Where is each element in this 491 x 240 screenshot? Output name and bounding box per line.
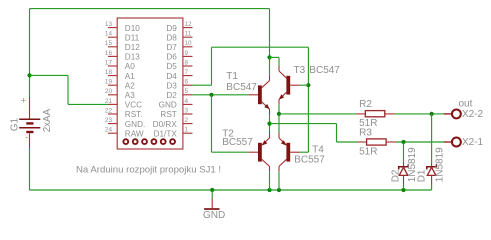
svg-text:4: 4	[185, 98, 189, 105]
pin 4 (GND)	[183, 103, 193, 105]
node A junction	[267, 122, 271, 126]
wire top V+ rail from battery to transistor column	[30, 8, 270, 10]
wire V+ to T1 collector	[269, 57, 271, 75]
pin 6 (D3)	[183, 84, 193, 86]
node B junction	[277, 112, 281, 116]
svg-text:VCC: VCC	[125, 101, 142, 110]
svg-text:out: out	[459, 98, 473, 109]
connector X2-2	[444, 113, 453, 115]
svg-text:11: 11	[185, 31, 192, 38]
pin 12 (D9)	[183, 27, 193, 29]
svg-text:23: 23	[105, 117, 113, 124]
svg-text:D8: D8	[166, 33, 177, 42]
svg-text:51R: 51R	[359, 146, 377, 157]
svg-text:12: 12	[185, 21, 193, 28]
svg-text:BC557: BC557	[222, 137, 253, 148]
svg-text:13: 13	[105, 21, 113, 28]
wire T2 collector down	[269, 172, 271, 190]
pin 19 (A2)	[108, 84, 117, 86]
ground symbol	[211, 199, 213, 209]
wire V+ jog to T3 collector	[270, 56, 280, 58]
node V+ junction	[267, 55, 271, 59]
wire GND stub	[211, 190, 213, 199]
svg-text:15: 15	[105, 40, 113, 47]
wire base rail to T4 base	[300, 151, 309, 153]
svg-text:X2-1: X2-1	[462, 137, 484, 148]
svg-text:17: 17	[105, 59, 113, 66]
node T2 collector junction	[267, 188, 271, 192]
svg-text:D1/TX: D1/TX	[154, 129, 178, 138]
wire D1 bottom	[431, 185, 433, 191]
svg-text:2xAA: 2xAA	[42, 108, 53, 132]
wire bottom GND rail	[30, 189, 432, 191]
wire pin5 net down	[211, 95, 213, 152]
svg-text:X2-2: X2-2	[462, 109, 484, 120]
pin 8 (D5)	[183, 65, 193, 67]
wire R2 to X2-2	[395, 113, 444, 115]
svg-text:D10: D10	[125, 24, 140, 33]
node T3 base junction	[306, 83, 310, 87]
pin 7 (D4)	[183, 75, 193, 77]
wire V+ rail drop	[269, 9, 271, 58]
transistor T4 BC557	[286, 143, 290, 162]
svg-text:GND: GND	[159, 101, 177, 110]
svg-text:20: 20	[105, 88, 113, 95]
pin 18 (A1)	[108, 75, 117, 77]
pin 17 (A0)	[108, 65, 117, 67]
wire node A vertical (T1 emitter to T2 emitter)	[269, 114, 271, 133]
svg-text:A0: A0	[125, 62, 135, 71]
svg-text:21: 21	[105, 98, 113, 105]
svg-text:BC547: BC547	[309, 65, 340, 76]
transistor T2 BC557	[258, 143, 262, 162]
svg-text:G1: G1	[10, 118, 21, 132]
svg-text:16: 16	[105, 50, 113, 57]
svg-text:RST: RST	[160, 110, 176, 119]
pin 3 (RST)	[183, 113, 193, 115]
svg-text:D12: D12	[125, 43, 140, 52]
pin 24 (RAW)	[108, 132, 117, 134]
svg-text:+: +	[21, 95, 26, 105]
pin 14 (D11)	[108, 36, 117, 38]
svg-text:D0/RX: D0/RX	[153, 120, 178, 129]
svg-text:RST.: RST.	[125, 110, 143, 119]
svg-text:5: 5	[185, 88, 189, 95]
svg-text:D6: D6	[166, 53, 177, 62]
svg-text:10: 10	[185, 40, 193, 47]
wire D2 bottom	[403, 185, 405, 191]
svg-text:9: 9	[185, 50, 189, 57]
svg-text:A3: A3	[125, 91, 135, 100]
svg-text:2: 2	[185, 117, 189, 124]
wire node A to R3	[270, 123, 337, 125]
wire D2 pin5 net to T1 base	[193, 94, 249, 96]
svg-text:D4: D4	[166, 72, 177, 81]
IC U1 Arduino Pro Mini body	[117, 18, 183, 149]
svg-text:D2: D2	[390, 169, 401, 182]
svg-text:3: 3	[185, 107, 189, 114]
svg-text:D1: D1	[417, 169, 428, 182]
node pin5 junction	[209, 93, 213, 97]
wire T4 collector down	[278, 172, 280, 190]
pin 2 (D0/RX)	[183, 123, 193, 125]
wire battery minus vertical	[29, 148, 31, 190]
svg-text:19: 19	[105, 79, 113, 86]
node D1 top junction	[430, 112, 434, 116]
connector X2-1	[444, 141, 453, 143]
svg-text:-: -	[25, 132, 28, 142]
transistor T1 BC547	[258, 85, 262, 104]
pin 11 (D8)	[183, 36, 193, 38]
diode D1 1N5819	[431, 163, 433, 167]
svg-text:R2: R2	[359, 99, 372, 110]
wire VCC jog to pin 21	[68, 103, 108, 105]
svg-text:GND: GND	[203, 210, 225, 221]
pin 15 (D12)	[108, 46, 117, 48]
svg-text:18: 18	[105, 69, 113, 76]
node battery junction	[27, 73, 31, 77]
svg-text:A1: A1	[125, 72, 135, 81]
svg-text:BC557: BC557	[294, 154, 325, 165]
svg-text:8: 8	[185, 59, 189, 66]
pin 1 (D1/TX)	[183, 132, 193, 134]
pin 5 (D2)	[183, 94, 193, 96]
svg-text:RAW: RAW	[125, 129, 144, 138]
wire battery plus vertical	[29, 9, 31, 97]
diode D2 1N5819	[403, 163, 405, 167]
transistor T3 BC547	[286, 76, 290, 95]
wire base rail to T3 base	[300, 84, 309, 86]
pin 23 (GND.)	[108, 123, 117, 125]
svg-text:24: 24	[105, 127, 113, 134]
wire pin5 net to T2 base	[212, 151, 249, 153]
wire node B to R2	[279, 113, 356, 115]
svg-text:BC547: BC547	[226, 82, 257, 93]
svg-text:1: 1	[185, 127, 189, 134]
wire node B vertical (T3 emitter to T4 emitter)	[278, 104, 280, 133]
pin 22 (RST.)	[108, 113, 117, 115]
svg-text:T1: T1	[226, 71, 238, 82]
IC programming pads	[123, 139, 128, 144]
svg-text:R3: R3	[359, 127, 372, 138]
wire D2 vertical	[403, 142, 405, 163]
svg-text:A2: A2	[125, 81, 135, 90]
wire VCC jog vertical	[67, 75, 69, 104]
svg-text:D9: D9	[166, 24, 177, 33]
svg-text:D3: D3	[166, 81, 177, 90]
resistor R3 51R	[358, 141, 367, 143]
battery G1 2xAA	[29, 97, 31, 119]
node D2 top junction	[401, 140, 405, 144]
svg-text:D2: D2	[166, 91, 177, 100]
node T4 collector junction	[277, 188, 281, 192]
svg-text:D13: D13	[125, 53, 140, 62]
pin 16 (D13)	[108, 55, 117, 57]
pin 21 (VCC)	[108, 103, 117, 105]
svg-text:GND.: GND.	[125, 120, 145, 129]
svg-text:Na Arduinu rozpojit propojku S: Na Arduinu rozpojit propojku SJ1 !	[76, 164, 221, 175]
svg-text:D5: D5	[166, 62, 177, 71]
svg-text:D11: D11	[125, 33, 140, 42]
wire VCC jog horizontal	[30, 74, 69, 76]
svg-text:7: 7	[185, 69, 189, 76]
pin 20 (A3)	[108, 94, 117, 96]
svg-text:D7: D7	[166, 43, 177, 52]
svg-text:22: 22	[105, 107, 113, 114]
pin 13 (D10)	[108, 27, 117, 29]
svg-text:6: 6	[185, 79, 189, 86]
pin 10 (D7)	[183, 46, 193, 48]
resistor R2 51R	[356, 113, 365, 115]
wire R3 to X2-1	[396, 141, 444, 143]
node D2 bottom junction	[401, 188, 405, 192]
node GND tap	[210, 188, 214, 192]
wire D3 pin6 net	[193, 84, 212, 86]
wire D1 vertical	[431, 114, 433, 163]
svg-text:1N5819: 1N5819	[435, 147, 446, 182]
svg-text:T3: T3	[294, 65, 306, 76]
svg-text:14: 14	[105, 31, 113, 38]
pin 9 (D6)	[183, 55, 193, 57]
